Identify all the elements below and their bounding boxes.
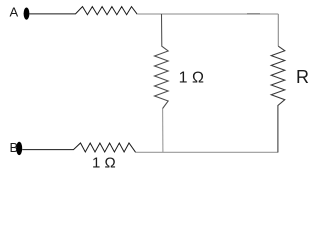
- svg-text:1 Ω: 1 Ω: [92, 155, 116, 172]
- svg-text:A: A: [10, 5, 19, 20]
- svg-text:R: R: [296, 67, 309, 87]
- svg-text:1 Ω: 1 Ω: [179, 70, 204, 87]
